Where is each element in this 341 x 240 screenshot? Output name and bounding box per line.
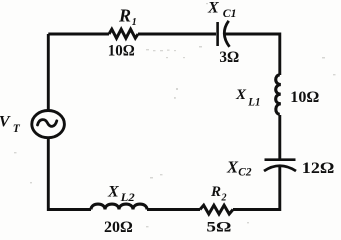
capacitor XC2 bottom curved plate bbox=[264, 166, 296, 171]
svg-text:L2: L2 bbox=[120, 192, 135, 204]
svg-text:1: 1 bbox=[132, 17, 137, 28]
svg-text:C2: C2 bbox=[238, 165, 251, 179]
capacitor XC1 left plate bbox=[216, 22, 219, 46]
capacitor XC1 right curved plate bbox=[224, 21, 229, 47]
svg-text:10Ω: 10Ω bbox=[108, 42, 135, 59]
svg-text:X: X bbox=[235, 87, 247, 103]
svg-text:V: V bbox=[0, 114, 11, 131]
svg-text:C1: C1 bbox=[223, 6, 237, 20]
capacitor XC2 top plate bbox=[265, 158, 296, 161]
wire XC1 to top-right corner and down bbox=[224, 34, 280, 75]
inductor XL2 bbox=[91, 204, 147, 209]
resistor R1 bbox=[109, 29, 138, 38]
wire top-left segment bbox=[48, 33, 109, 36]
svg-text:10Ω: 10Ω bbox=[290, 89, 319, 106]
svg-text:L1: L1 bbox=[247, 97, 260, 109]
source VT circle bbox=[32, 111, 65, 138]
resistor R2 bbox=[200, 205, 233, 214]
source sine wave bbox=[38, 120, 57, 127]
svg-text:5Ω: 5Ω bbox=[206, 220, 231, 236]
wire circle up to top-left corner bbox=[47, 34, 50, 110]
svg-text:R: R bbox=[210, 184, 221, 200]
svg-text:T: T bbox=[13, 123, 21, 135]
wire R2 to XL2 bbox=[147, 208, 200, 211]
svg-text:20Ω: 20Ω bbox=[104, 219, 133, 236]
inductor XL1 bbox=[276, 75, 281, 115]
svg-text:X: X bbox=[226, 157, 239, 176]
svg-text:3Ω: 3Ω bbox=[219, 49, 239, 66]
svg-text:2: 2 bbox=[221, 193, 227, 204]
svg-text:12Ω: 12Ω bbox=[302, 160, 335, 177]
wire XL2 to bottom-left corner and up bbox=[48, 138, 91, 210]
wire XC2 to bottom-right corner bbox=[233, 166, 280, 210]
svg-text:X: X bbox=[107, 183, 119, 200]
wire R1 to XC1 bbox=[138, 33, 216, 36]
svg-text:R: R bbox=[118, 6, 131, 26]
svg-text:X: X bbox=[207, 0, 219, 17]
wire XL1 to XC2 bbox=[278, 115, 281, 159]
